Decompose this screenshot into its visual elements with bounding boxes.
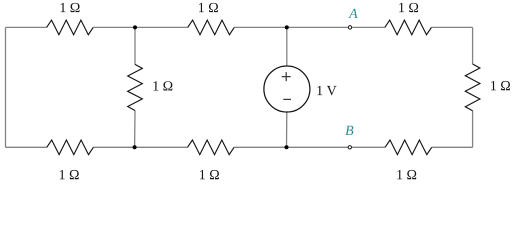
voltage source minus sign [283, 98, 291, 100]
wire top rail R2 to node2 [234, 26, 286, 28]
wire bottom rail node4 to terminal B [287, 146, 348, 148]
wire bottom rail terminal B to R6 [352, 146, 385, 148]
wire top rail node2 to terminal A [287, 26, 348, 28]
label R1 value 1 ohm [61, 3, 80, 12]
label R4 value 1 ohm [60, 170, 79, 179]
resistor R4 (bottom left, 1 ohm) [47, 140, 94, 155]
wire bottom rail R5 to node4 [234, 146, 286, 148]
wire top rail left segment [6, 26, 47, 28]
resistor RV1 (middle vertical, 1 ohm) [128, 64, 143, 110]
label node B [345, 126, 353, 135]
wire bottom rail node3 to R5 [135, 146, 188, 148]
terminal A open circle [348, 26, 351, 29]
resistor R6 (bottom right, 1 ohm) [385, 140, 432, 155]
wire top rail terminal A to R3 [352, 26, 385, 28]
wire top rail R1 to node1 [93, 26, 135, 28]
node junction dot top-left [133, 25, 137, 29]
label R2 value 1 ohm [199, 3, 218, 12]
resistor R3 (top right, 1 ohm) [385, 20, 432, 35]
resistor R1 (top left, 1 ohm) [47, 20, 94, 35]
terminal B open circle [348, 146, 351, 149]
label V1 value 1 V [317, 86, 336, 95]
wire right edge upper [472, 27, 474, 64]
wire source branch lower (V1 to node4) [286, 112, 288, 147]
label node A [348, 9, 357, 18]
wire right edge lower [472, 111, 474, 148]
wire source branch upper (node2 to V1) [286, 27, 288, 66]
wire bottom rail R6 to bottom-right corner [432, 146, 473, 148]
node junction dot bottom-left [133, 145, 137, 149]
label RV2 value 1 ohm [491, 81, 510, 90]
resistor R2 (top middle, 1 ohm) [188, 20, 235, 35]
wire left edge [5, 27, 7, 147]
label R3 value 1 ohm [399, 3, 418, 12]
wire bottom rail left segment [6, 146, 47, 148]
resistor RV2 (right vertical, 1 ohm) [465, 64, 480, 111]
wire bottom rail R4 to node3 [93, 146, 134, 148]
node junction dot bottom-middle [285, 145, 289, 149]
wire middle branch upper (node1 to RV1) [134, 27, 136, 64]
label R6 value 1 ohm [397, 170, 416, 179]
label RV1 value 1 ohm [153, 81, 172, 90]
wire middle branch lower (RV1 to node3) [134, 111, 136, 148]
voltage source plus sign [282, 72, 291, 81]
label R5 value 1 ohm [200, 170, 219, 179]
wire top rail R3 to top-right corner [431, 26, 472, 28]
resistor R5 (bottom middle, 1 ohm) [188, 140, 235, 155]
voltage source V1 circle [264, 66, 310, 112]
wire top rail node1 to R2 [135, 26, 188, 28]
node junction dot top-middle [285, 25, 289, 29]
